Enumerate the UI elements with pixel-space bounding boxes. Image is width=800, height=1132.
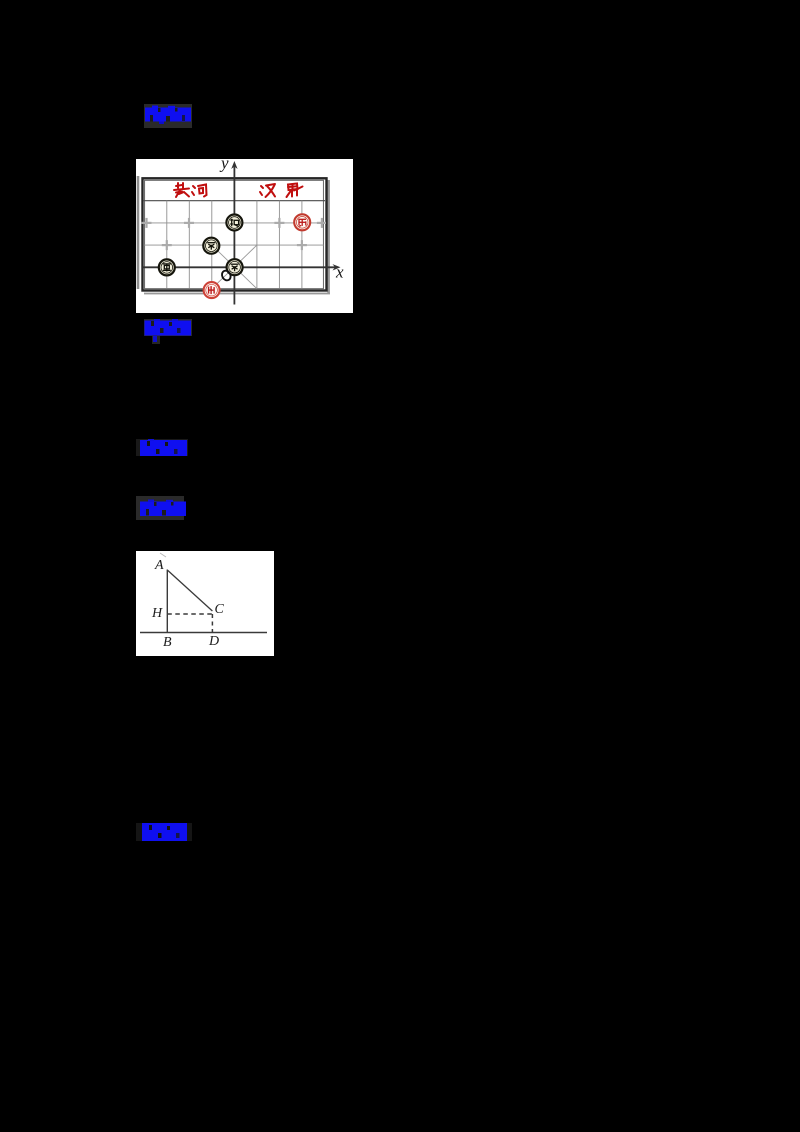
svg-text:A: A xyxy=(154,558,164,573)
svg-text:H: H xyxy=(151,606,163,621)
svg-text:D: D xyxy=(208,634,219,649)
svg-text:y: y xyxy=(219,159,229,173)
svg-text:C: C xyxy=(215,602,225,617)
svg-text:x: x xyxy=(335,263,344,282)
svg-text:B: B xyxy=(163,635,172,650)
